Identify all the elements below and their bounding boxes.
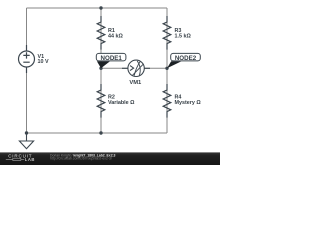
wire middle branch R1/R2 vertical x=101 — [100, 8, 102, 133]
wire middle horizontal NODE1-VM1-NODE2 y=68 — [101, 67, 167, 69]
resistor R3 — [163, 16, 171, 50]
resistor R2 — [97, 84, 105, 118]
junction dot ground (26.5,133) — [25, 131, 28, 134]
voltmeter VM1 — [122, 60, 150, 76]
svg-text:http://circuitlab.com/c/67nxq5: http://circuitlab.com/c/67nxq5/lab2-ex2-… — [50, 157, 112, 161]
svg-text:44 kΩ: 44 kΩ — [108, 34, 123, 40]
junction dot bottom R2 (101,133) — [99, 131, 102, 134]
svg-text:VM1: VM1 — [129, 80, 142, 86]
svg-text:Variable Ω: Variable Ω — [108, 100, 135, 106]
logo wire glyph + LAB — [6, 157, 35, 162]
resistor R1 — [97, 16, 105, 50]
node label NODE2 — [171, 53, 201, 61]
junction dot NODE2 (167,68) — [165, 67, 168, 70]
svg-text:NODE1: NODE1 — [101, 55, 123, 62]
wire left vertical upper (top wire to V1) — [26, 8, 28, 51]
resistor R4 — [163, 84, 171, 118]
ground — [19, 133, 33, 149]
svg-text:Mystery Ω: Mystery Ω — [175, 100, 202, 106]
node label NODE1 — [96, 53, 126, 61]
wire bottom: (27,133) to (167,133) — [27, 132, 168, 134]
node flag NODE2 — [167, 61, 182, 68]
wire right branch R3/R4 vertical x=167 — [166, 8, 168, 133]
voltage source V1 — [19, 45, 35, 73]
wire left vertical lower (V1 to bottom wire) — [26, 67, 28, 133]
svg-text:10 V: 10 V — [38, 59, 49, 65]
junction dot top (101,8) — [99, 6, 102, 9]
svg-text:NODE2: NODE2 — [175, 55, 197, 62]
junction dot NODE1 (101,68) — [99, 67, 102, 70]
node flag NODE1 — [97, 61, 110, 68]
svg-text:LAB: LAB — [25, 157, 35, 162]
wire top: node at (27,8) to (167,8) — [27, 7, 168, 9]
svg-text:1.5 kΩ: 1.5 kΩ — [175, 34, 192, 40]
